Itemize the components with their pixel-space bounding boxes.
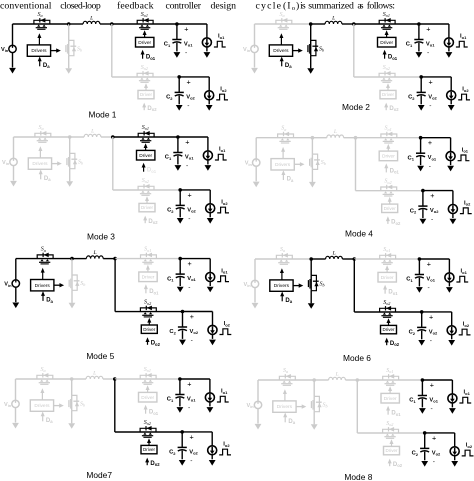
svg-text:-: -	[190, 457, 192, 464]
M7 wire Sb to ground	[71, 411, 73, 424]
M2 duty input Do1	[383, 50, 398, 61]
svg-text:Do2: Do2	[151, 341, 161, 347]
M1 pulse waveform Io2	[216, 94, 228, 100]
M5 duty input Do1	[144, 284, 159, 295]
M3 wire Io2 to ground	[209, 213, 211, 218]
M6 node output2 junction	[420, 310, 424, 314]
svg-text:L: L	[333, 129, 337, 135]
svg-text:Da: Da	[46, 298, 53, 304]
M3 drivers block	[28, 158, 51, 169]
M2 pulse waveform Io2	[458, 94, 470, 100]
M6 switch Sb	[308, 259, 324, 291]
M2 current source Io2	[447, 91, 456, 100]
M6 ground (C1)	[416, 287, 423, 293]
svg-text:C2: C2	[169, 329, 176, 335]
svg-text:Vin: Vin	[243, 47, 251, 53]
svg-text:Vin: Vin	[4, 282, 12, 288]
M6 duty input Do1	[383, 285, 398, 296]
M4 ground (Sb)	[309, 182, 316, 188]
M7 duty input Do1	[144, 405, 159, 416]
svg-text:Vo2: Vo2	[432, 450, 441, 456]
M2 wire Io1 to ground	[448, 47, 450, 52]
svg-text:Io2: Io2	[463, 322, 470, 328]
M7 wire inductor to node2	[103, 378, 115, 380]
M3 ground (Io2)	[207, 218, 214, 224]
M5 drivers to Sa gate arrow	[42, 271, 44, 279]
M7 wire Vin to rail	[15, 379, 17, 400]
M2 wire Io2 to ground	[450, 100, 452, 105]
M3 driver1 to So1 gate arrow	[145, 147, 147, 151]
M3 pulse waveform Io1	[215, 154, 227, 160]
M5 node output1 junction	[178, 257, 182, 261]
M6 pulse waveform Io1	[456, 276, 468, 282]
M3 wire Sb to ground	[69, 169, 71, 182]
svg-text:Io2: Io2	[223, 442, 230, 448]
M3 capacitor C1	[173, 153, 182, 157]
svg-text:Vin: Vin	[4, 402, 12, 408]
M4 driver block (So1)	[379, 151, 397, 161]
svg-text:Driver: Driver	[141, 395, 154, 401]
svg-text:Drivers: Drivers	[274, 283, 290, 289]
svg-text:+: +	[188, 190, 192, 199]
M3 wire junction to C1	[177, 137, 179, 153]
svg-text:Io1: Io1	[462, 147, 469, 153]
M2 switch Sb	[308, 24, 324, 56]
svg-text:-: -	[431, 406, 433, 413]
svg-text:Vo2: Vo2	[186, 94, 195, 100]
svg-text:follows:: follows:	[367, 0, 395, 11]
svg-text:Do1: Do1	[388, 290, 398, 296]
svg-text:Do2: Do2	[393, 462, 403, 468]
M8 wire Sb to ground	[313, 412, 315, 425]
M7 drivers block	[30, 400, 53, 411]
svg-text:So2: So2	[144, 300, 151, 306]
svg-text:Mode 8: Mode 8	[344, 472, 372, 481]
M4 duty input Da	[281, 170, 294, 183]
M1 node Sb-rail junction	[67, 22, 71, 26]
M1 drivers to Sa gate arrow	[38, 37, 40, 45]
M7 node inductor-output junction	[113, 377, 117, 381]
svg-text:Vo2: Vo2	[189, 449, 198, 455]
M3 wire Vin to rail	[13, 137, 15, 158]
svg-text:Sb: Sb	[323, 402, 328, 408]
M6 ground (Sb)	[308, 303, 315, 309]
M6 wire Vin to rail	[254, 259, 256, 280]
M6 driver block (So2)	[381, 325, 397, 333]
svg-text:summarized: summarized	[308, 0, 354, 11]
svg-text:Do1: Do1	[388, 55, 398, 61]
M2 node Sb-rail junction	[309, 22, 313, 26]
M1 wire to So2 to C2 junction	[112, 76, 179, 78]
svg-text:closed-loop: closed-loop	[60, 0, 101, 11]
M1 wire Io2 to ground	[208, 100, 210, 105]
M5 pulse waveform Io2	[220, 329, 232, 335]
M2 duty input Do2	[384, 103, 399, 113]
M6 switch So2	[380, 300, 396, 317]
M2 capacitor C2	[417, 92, 426, 96]
M8 node output2 junction	[423, 431, 427, 435]
M8 wire output1 top	[422, 379, 452, 381]
M5 wire C2 to ground	[182, 330, 184, 339]
svg-text:Vo1: Vo1	[187, 396, 196, 402]
M5 ground (Io2)	[209, 340, 216, 346]
M5 wire output1 top	[180, 258, 210, 260]
M4 wire to Io2	[452, 191, 454, 205]
M8 wire node2 down to So2 rail	[356, 380, 358, 433]
M8 capacitor C1	[418, 396, 427, 400]
svg-text:Da: Da	[46, 418, 53, 424]
M1 switch Sb	[66, 24, 82, 56]
svg-text:So2: So2	[383, 300, 390, 306]
M4 wire output1 top	[421, 137, 451, 139]
svg-text:Driver: Driver	[143, 327, 156, 332]
M8 drivers to Sb gate arrow	[296, 404, 306, 408]
M4 switch Sb	[310, 138, 326, 170]
M8 node output1 junction	[421, 378, 425, 382]
M8 wire junction to C1	[421, 380, 423, 396]
M1 wire junction to C2	[178, 77, 180, 93]
M1 current source Io2	[205, 91, 214, 100]
M2 pulse waveform Io1	[456, 41, 468, 47]
M5 node output2 junction	[181, 310, 185, 314]
M4 current source Io1	[446, 152, 455, 161]
M3 current source Io1	[203, 151, 212, 160]
svg-text:Sb: Sb	[77, 46, 82, 52]
svg-text:Driver: Driver	[142, 274, 155, 280]
M6 wire junction to C1	[418, 259, 420, 275]
M7 driver block (So1)	[139, 392, 157, 402]
M7 wire Io2 to ground	[211, 455, 213, 460]
svg-text:Driver: Driver	[386, 448, 399, 453]
M4 drivers to Sb gate arrow	[294, 162, 304, 166]
M1 wire Io1 to ground	[206, 47, 208, 52]
svg-text:Io1: Io1	[460, 34, 467, 40]
M2 switch So1	[379, 12, 395, 29]
svg-text:Vo2: Vo2	[187, 207, 196, 213]
svg-text:Sb: Sb	[80, 401, 85, 407]
M2 driver1 to So1 gate arrow	[386, 34, 388, 38]
svg-text:+: +	[190, 432, 194, 441]
M7 ground (Sb)	[68, 423, 75, 429]
M3 driver block (So1)	[137, 150, 155, 160]
svg-text:Io2: Io2	[466, 443, 473, 449]
svg-text:Driver: Driver	[140, 92, 153, 97]
M4 capacitor C2	[418, 206, 427, 210]
M1 wire input rail	[13, 23, 69, 25]
M6 ground (Io2)	[448, 340, 455, 346]
M7 wire to Io2	[211, 432, 213, 446]
M4 node inductor-output junction	[354, 136, 358, 140]
M7 ground (C1)	[177, 407, 184, 413]
M2 driver2 to So2 gate arrow	[387, 87, 389, 91]
M7 wire Io1 to ground	[209, 402, 211, 407]
svg-text:Da: Da	[43, 63, 50, 69]
M8 ground (C1)	[419, 408, 426, 414]
M8 wire Sb-node to inductor	[314, 379, 328, 381]
svg-text:So2: So2	[141, 65, 148, 71]
M6 wire to Io1	[448, 259, 450, 273]
M1 driver block (So1)	[136, 37, 154, 47]
M1 wire to Io2	[208, 77, 210, 91]
svg-text:Drivers: Drivers	[32, 161, 48, 167]
M4 ground (C1)	[417, 166, 424, 172]
M2 wire output1 top	[419, 23, 449, 25]
svg-text:Vo2: Vo2	[190, 329, 199, 335]
M1 switch So2	[137, 65, 153, 82]
M4 wire inductor to node2	[344, 137, 356, 139]
M4 wire Sb to ground	[311, 169, 313, 182]
svg-text:L: L	[331, 16, 335, 22]
M6 duty input Do2	[385, 338, 400, 348]
svg-text:controller: controller	[166, 0, 202, 11]
M3 wire output1 top	[178, 136, 208, 138]
M2 current source Io1	[444, 38, 453, 47]
M3 wire Sb-node to inductor	[70, 136, 84, 138]
M3 inductor L	[84, 129, 101, 138]
M4 wire C1 to ground	[420, 157, 422, 166]
M6 wire input rail	[255, 258, 311, 260]
M8 inductor L	[329, 372, 346, 381]
svg-text:C1: C1	[406, 277, 413, 283]
svg-text:-: -	[188, 405, 190, 412]
M5 driver block (So2)	[141, 325, 157, 333]
svg-text:Vin: Vin	[2, 160, 10, 166]
M4 ground (Io1)	[447, 166, 454, 172]
M1 ground (Io1)	[204, 52, 211, 58]
M6 wire Vin to ground	[254, 288, 256, 303]
M6 driver1 to So1 gate arrow	[386, 269, 388, 273]
M2 capacitor C1	[414, 40, 423, 44]
svg-text:C2: C2	[167, 208, 174, 214]
M5 wire to So2 to C2 junction	[115, 311, 182, 313]
M7 capacitor C1	[175, 395, 184, 399]
svg-text:Vo1: Vo1	[185, 154, 194, 160]
M6 wire output2 top	[422, 311, 452, 313]
M1 wire output1 top	[177, 23, 207, 25]
M6 wire C2 to ground	[421, 331, 423, 340]
svg-text:Sa: Sa	[39, 125, 44, 131]
M8 switch Sa	[279, 368, 295, 385]
M2 driver block (So1)	[378, 37, 396, 47]
M4 driver2 to So2 gate arrow	[389, 200, 391, 204]
svg-text:So1: So1	[386, 368, 393, 374]
M5 current source Io1	[206, 273, 215, 282]
M7 wire junction to C2	[181, 432, 183, 448]
M8 wire C2 to ground	[424, 452, 426, 461]
svg-text:So1: So1	[144, 247, 151, 253]
M5 current source Io2	[208, 325, 217, 334]
M4 ground (input)	[253, 182, 260, 188]
svg-text:So2: So2	[384, 179, 391, 185]
M5 driver block (So1)	[139, 272, 157, 282]
M6 node output1 junction	[418, 257, 422, 261]
M1 duty input Do1	[141, 50, 156, 61]
M2 wire node2 to So1 to C1 junction	[354, 23, 419, 25]
M7 wire Vin to ground	[15, 408, 17, 423]
M3 duty input Da	[39, 170, 52, 183]
M8 ground (Io2)	[451, 461, 458, 467]
M1 wire Vin to rail	[12, 24, 14, 45]
M6 drivers block	[270, 280, 293, 291]
svg-text:Do1: Do1	[146, 55, 156, 61]
svg-text:Io1: Io1	[464, 390, 471, 396]
M6 duty input Da	[280, 292, 293, 305]
svg-text:C1: C1	[406, 42, 413, 48]
M4 wire junction to C2	[422, 191, 424, 207]
M3 wire to Io2	[209, 190, 211, 204]
M3 pulse waveform Io2	[217, 207, 229, 213]
svg-text:-: -	[185, 50, 187, 57]
M2 ground (Io2)	[448, 105, 455, 111]
M8 wire junction to C2	[424, 433, 426, 449]
svg-text:Sb: Sb	[80, 281, 85, 287]
svg-text:So1: So1	[383, 12, 390, 18]
svg-text:-: -	[433, 458, 435, 465]
svg-text:Driver: Driver	[139, 153, 152, 159]
svg-text:So2: So2	[383, 65, 390, 71]
svg-text:-: -	[427, 50, 429, 57]
M6 pulse waveform Io2	[459, 329, 471, 335]
M8 wire input rail	[258, 379, 314, 381]
M4 node output2 junction	[421, 189, 425, 193]
svg-text:-: -	[187, 102, 189, 109]
M5 wire junction to C1	[179, 259, 181, 275]
M1 ground (input)	[9, 68, 16, 74]
svg-text:Drivers: Drivers	[273, 48, 289, 54]
M5 drivers to Sb gate arrow	[54, 283, 64, 287]
svg-text:L: L	[89, 16, 93, 22]
M1 current source Io1	[202, 38, 211, 47]
M3 wire inductor to node2	[101, 136, 113, 138]
M3 wire to Io1	[207, 137, 209, 151]
M5 ground (C2)	[179, 340, 186, 346]
svg-text:C2: C2	[410, 208, 417, 214]
M2 wire junction to C2	[420, 77, 422, 93]
M8 pulse waveform Io2	[462, 450, 474, 456]
M7 pulse waveform Io2	[219, 449, 231, 455]
M5 wire node2 down to So2 rail	[114, 259, 116, 312]
svg-text:Mode 6: Mode 6	[343, 353, 371, 363]
M5 wire Io1 to ground	[209, 281, 211, 286]
M2 wire Sb-node to inductor	[311, 23, 325, 25]
M7 wire to Io1	[209, 379, 211, 393]
M5 wire Sb to ground	[71, 290, 73, 303]
M1 wire junction to C1	[176, 24, 178, 40]
M4 driver1 to So1 gate arrow	[387, 147, 389, 151]
M4 capacitor C1	[416, 153, 425, 157]
M2 ground (Sb)	[307, 68, 314, 74]
M1 duty input Do2	[142, 103, 157, 113]
svg-text:Driver: Driver	[383, 327, 396, 332]
M3 switch Sa	[35, 125, 51, 142]
svg-text:Drivers: Drivers	[34, 403, 50, 409]
svg-text:Drivers: Drivers	[275, 162, 291, 168]
M2 wire to So2 to C2 junction	[354, 76, 421, 78]
M7 inductor L	[86, 371, 103, 380]
M7 wire input rail	[16, 378, 72, 380]
M3 node output1 junction	[176, 135, 180, 139]
M5 driver2 to So2 gate arrow	[148, 321, 150, 325]
M6 wire Io2 to ground	[451, 335, 453, 340]
M5 capacitor C2	[178, 327, 187, 331]
M4 driver block (So2)	[382, 204, 398, 212]
M4 wire C2 to ground	[422, 209, 424, 218]
M8 node Sb-rail junction	[312, 378, 316, 382]
svg-text:-: -	[429, 163, 431, 170]
M6 wire to So2 to C2 junction	[354, 311, 421, 313]
M1 wire node2 down to So2 rail	[111, 24, 113, 77]
M2 wire input rail	[255, 23, 311, 25]
M7 node output1 junction	[178, 377, 182, 381]
M5 wire to Io1	[209, 259, 211, 273]
svg-text:Do2: Do2	[148, 219, 158, 225]
M5 wire input rail	[16, 258, 72, 260]
svg-text:+: +	[188, 259, 192, 268]
M3 drivers to Sb gate arrow	[52, 161, 62, 165]
M6 driver block (So1)	[378, 272, 396, 282]
svg-text:Vin: Vin	[246, 403, 254, 409]
svg-text:L: L	[335, 372, 339, 378]
M6 current source Io1	[445, 273, 454, 282]
svg-text:-: -	[431, 216, 433, 223]
M2 switch So2	[379, 65, 395, 82]
M8 pulse waveform Io1	[459, 397, 471, 403]
svg-text:Sa: Sa	[38, 12, 43, 18]
M2 ground (C2)	[418, 105, 425, 111]
M3 wire input rail	[14, 136, 70, 138]
svg-text:+: +	[429, 77, 433, 86]
M2 drivers block	[269, 45, 292, 56]
M3 ground (C1)	[175, 165, 182, 171]
M7 driver2 to So2 gate arrow	[148, 442, 150, 446]
M6 switch So1	[380, 247, 396, 264]
M2 wire Vin to ground	[254, 53, 256, 68]
M6 wire Sb-node to inductor	[311, 258, 325, 260]
svg-text:Drivers: Drivers	[277, 404, 293, 410]
M6 capacitor C2	[417, 327, 426, 331]
M8 driver block (So1)	[381, 393, 399, 403]
M1 wire C1 to ground	[176, 43, 178, 52]
M2 ground (Io1)	[446, 52, 453, 58]
M4 wire Vin to rail	[255, 138, 257, 159]
M8 switch Sb	[311, 380, 327, 412]
M8 duty input Do1	[386, 406, 401, 417]
M8 drivers block	[273, 401, 296, 412]
M7 wire C2 to ground	[181, 451, 183, 460]
M7 wire Sb-node to inductor	[72, 378, 86, 380]
svg-text:Vin: Vin	[1, 47, 9, 53]
svg-text:Vo1: Vo1	[428, 155, 437, 161]
svg-text:Drivers: Drivers	[35, 283, 51, 289]
M3 wire output2 top	[180, 189, 210, 191]
svg-text:Vo1: Vo1	[426, 276, 435, 282]
svg-text:Do1: Do1	[147, 168, 157, 174]
M7 node output2 junction	[180, 430, 184, 434]
M6 wire Io1 to ground	[448, 282, 450, 287]
M8 drivers to Sa gate arrow	[284, 393, 286, 401]
M8 ground (Io1)	[449, 408, 456, 414]
M5 inductor L	[86, 250, 103, 259]
M1 wire Sb to ground	[68, 56, 70, 69]
M4 wire Io1 to ground	[450, 160, 452, 165]
M4 switch Sa	[278, 126, 294, 143]
svg-text:cycle: cycle	[256, 0, 282, 11]
M4 wire output2 top	[423, 190, 453, 192]
M1 driver2 to So2 gate arrow	[145, 87, 147, 91]
svg-text:+: +	[430, 380, 434, 389]
M5 ground (input)	[12, 303, 19, 309]
M1 node output1 junction	[175, 22, 179, 26]
